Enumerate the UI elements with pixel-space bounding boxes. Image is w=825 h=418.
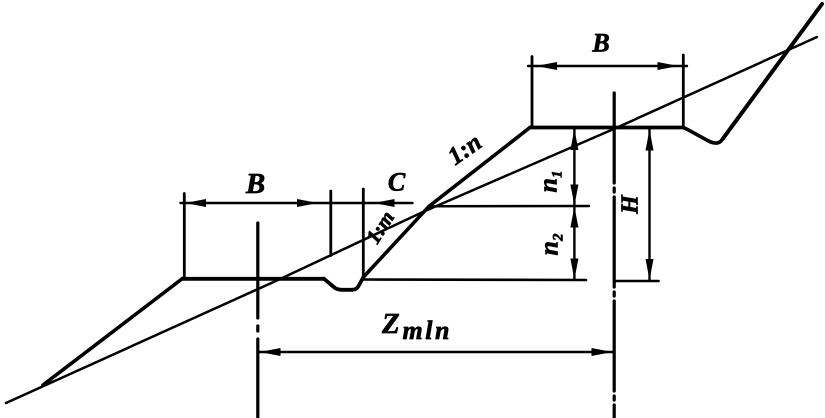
lower reference line for H	[616, 280, 659, 283]
lower drainage ditch	[324, 277, 364, 290]
upper drainage ditch	[684, 128, 724, 144]
svg-text:H: H	[618, 194, 644, 215]
lower reference line for h2	[362, 278, 586, 281]
lower terrace centerline	[256, 223, 259, 418]
svg-text:C: C	[388, 168, 406, 197]
cut slope 1:n segment	[429, 128, 530, 207]
lower B right tick line	[329, 191, 332, 256]
fill slope lower terrace	[43, 279, 183, 386]
upper B right extension line	[682, 55, 685, 128]
arrow Zmin left	[260, 348, 281, 356]
Zmin dimension line	[259, 351, 613, 353]
H dimension line	[648, 129, 650, 281]
arrow B2 left	[536, 62, 557, 70]
arrow h1 bottom	[570, 185, 578, 206]
arrow B1 left	[185, 199, 206, 207]
svg-text:1:m: 1:m	[361, 207, 399, 248]
svg-text:B: B	[245, 168, 265, 200]
arrow H top	[646, 130, 654, 151]
C extension line at ditch edge	[362, 189, 365, 277]
arrow C left	[374, 199, 395, 207]
upper B dimension line	[528, 65, 687, 67]
cut slope 1:m segment	[364, 206, 430, 277]
lower terrace platform surface	[183, 277, 325, 281]
upper B left extension line	[531, 57, 534, 128]
svg-text:n1: n1	[534, 171, 566, 193]
lower B and C dimension line	[181, 202, 413, 204]
svg-text:Z: Z	[381, 308, 400, 340]
arrow B2 right	[658, 62, 679, 70]
h dimension line	[573, 128, 575, 280]
upper hillside cut slope	[723, 4, 822, 139]
arrow H bottom	[646, 259, 654, 280]
lower B left extension line	[183, 194, 186, 279]
svg-text:B: B	[591, 29, 609, 58]
svg-text:mln: mln	[403, 316, 452, 345]
upper terrace centerline	[613, 93, 616, 418]
arrow h1 top	[570, 129, 578, 150]
arrow Zmin right	[592, 348, 613, 356]
svg-text:n2: n2	[535, 233, 567, 255]
arrow h2 top	[570, 207, 578, 228]
arrow B1 right	[297, 199, 318, 207]
middle reference line top of 1:m	[429, 205, 589, 208]
upper terrace platform surface	[530, 126, 684, 130]
arrow h2 bottom	[570, 259, 578, 280]
